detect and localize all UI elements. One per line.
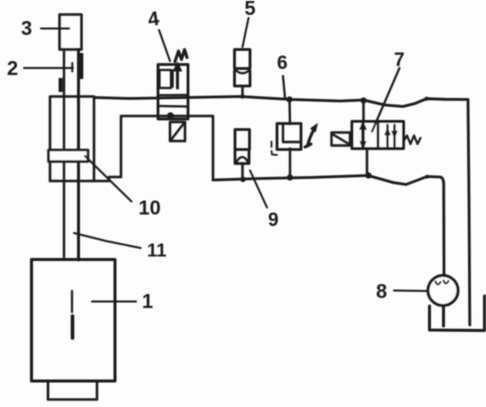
svg-text:4: 4 — [146, 8, 161, 31]
svg-text:10: 10 — [139, 198, 161, 220]
svg-text:2: 2 — [7, 58, 18, 80]
svg-text:8: 8 — [376, 281, 387, 303]
svg-text:7: 7 — [394, 50, 405, 71]
svg-text:1: 1 — [142, 291, 153, 313]
svg-text:6: 6 — [277, 53, 288, 74]
svg-text:5: 5 — [245, 0, 256, 20]
svg-text:11: 11 — [147, 240, 167, 261]
svg-text:9: 9 — [268, 210, 279, 231]
svg-text:3: 3 — [21, 18, 32, 40]
